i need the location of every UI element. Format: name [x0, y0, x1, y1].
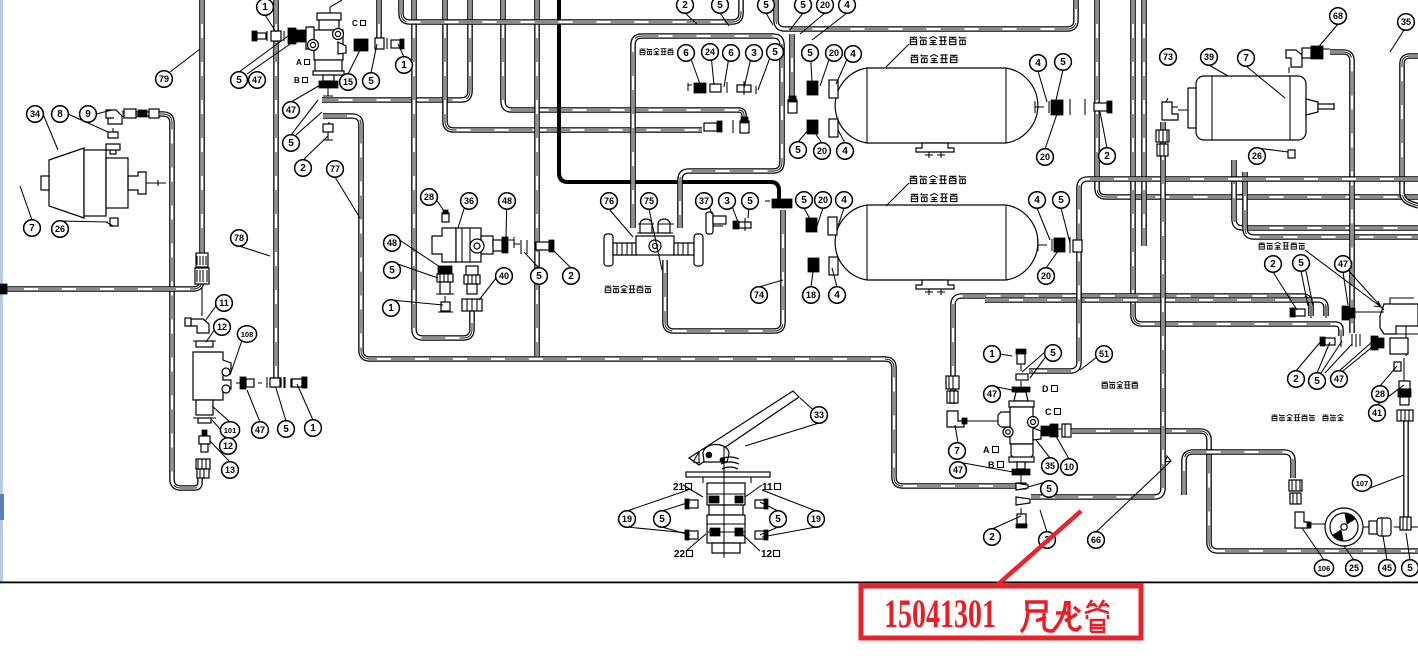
node callout 47: [1331, 371, 1348, 387]
svg-text:4: 4: [842, 146, 848, 157]
node callout 20: [815, 192, 832, 208]
svg-text:2: 2: [1293, 374, 1299, 385]
node callout 2: [984, 529, 1001, 545]
svg-text:2: 2: [989, 532, 995, 543]
leader lines 2: [627, 44, 1410, 560]
node callout 20: [814, 143, 831, 159]
node callout 47: [984, 386, 1001, 402]
node callout 4: [1030, 55, 1047, 71]
node callout 6: [678, 45, 695, 61]
node callout 106: [1314, 560, 1333, 576]
label install-left (hand valve): [1102, 381, 1138, 388]
node callout 79: [156, 71, 173, 87]
wire segment elbow7 to hand valve A: [962, 420, 1001, 422]
treadle port labels: [673, 482, 781, 560]
svg-text:5: 5: [772, 47, 778, 58]
node callout 5: [363, 73, 380, 89]
svg-text:78: 78: [234, 233, 244, 243]
node callout 4: [829, 287, 846, 303]
node callout 5: [802, 45, 819, 61]
wire long run to hand valve top: [1029, 179, 1418, 371]
node callout 3: [719, 193, 736, 209]
svg-text:4: 4: [1034, 195, 1040, 206]
svg-text:35: 35: [1045, 461, 1055, 471]
node callout 68: [1330, 8, 1347, 24]
node callout 5: [790, 142, 807, 158]
connector 107-line: [1289, 480, 1302, 504]
svg-text:25: 25: [1349, 563, 1359, 573]
wire riser 41 to gauge tee: [1403, 421, 1409, 519]
svg-text:73: 73: [1163, 52, 1173, 62]
node callout 9: [80, 106, 97, 122]
node callout 5: [278, 421, 295, 437]
svg-text:5: 5: [389, 265, 395, 276]
svg-text:47: 47: [987, 389, 997, 399]
wire drop to tank1 port row: [789, 34, 795, 100]
svg-text:21: 21: [673, 482, 685, 493]
fittings right of valve: 15,5,1: [354, 38, 404, 51]
wire dryer outlet down: [1330, 52, 1352, 333]
svg-text:36: 36: [464, 196, 474, 206]
svg-text:12: 12: [223, 441, 233, 451]
part 1 below: [438, 296, 453, 312]
svg-text:5: 5: [1046, 484, 1052, 495]
svg-text:C: C: [1045, 407, 1052, 417]
part 3 fitting: [733, 218, 751, 231]
wire right run C: [1234, 160, 1418, 228]
tank2 upper-left port: [806, 217, 837, 235]
svg-text:20: 20: [1041, 271, 1051, 281]
tank1 lower-left port fitting: [807, 119, 838, 137]
svg-text:15041301: 15041301: [884, 591, 996, 636]
node callout 2: [1099, 148, 1116, 164]
svg-text:11: 11: [219, 298, 229, 308]
svg-text:48: 48: [502, 196, 512, 206]
node callout 51: [1096, 346, 1113, 362]
air tank tank1: [835, 68, 1038, 158]
air tank tank2: [835, 205, 1038, 295]
drain valve 8: [106, 128, 120, 154]
node callout 48: [499, 193, 516, 209]
node callout 4: [845, 46, 862, 62]
fitting 5/1 mid-left: [270, 377, 307, 388]
svg-text:C: C: [352, 19, 358, 28]
svg-text:13: 13: [225, 465, 235, 475]
brake chamber 34: [41, 148, 166, 218]
wire valve A-port run: [322, 0, 470, 100]
svg-text:5: 5: [800, 0, 806, 11]
label tank2 line2: [911, 193, 957, 201]
wire tube 74 loop to protection valve: [665, 210, 783, 331]
svg-text:28: 28: [1375, 389, 1385, 399]
svg-text:19: 19: [811, 514, 821, 524]
fitting 41 stack: [1397, 358, 1413, 421]
node callout 77: [327, 161, 344, 177]
svg-text:5: 5: [1407, 563, 1413, 574]
svg-text:2: 2: [568, 271, 574, 282]
svg-text:D: D: [1042, 384, 1049, 394]
svg-text:5: 5: [1050, 348, 1056, 359]
node callout 25: [1346, 560, 1363, 576]
fitting 47 upper: [1342, 306, 1384, 320]
wire run to relay valve fitting 40: [414, 0, 472, 338]
node callout 5: [767, 44, 784, 60]
svg-text:24: 24: [705, 47, 715, 57]
red highlight leader: [995, 511, 1081, 587]
svg-text:5: 5: [717, 0, 723, 11]
svg-text:2: 2: [1104, 151, 1110, 162]
elbow 9: [106, 110, 122, 124]
node callout 20: [817, 0, 834, 13]
svg-text:37: 37: [699, 196, 709, 206]
svg-text:5: 5: [807, 48, 813, 59]
protection valve (top-left): [306, 0, 346, 96]
svg-text:28: 28: [424, 192, 434, 202]
fitting 12 lower: [199, 430, 210, 452]
fitting 5 and 1 near LSV: [267, 377, 306, 388]
node callout 20: [1038, 268, 1055, 284]
node callout 28: [1372, 386, 1389, 402]
part 37 flanged plug: [706, 212, 726, 234]
svg-text:7: 7: [29, 223, 35, 234]
hand valve C-port fitting 35/10: [1041, 424, 1071, 437]
svg-text:1: 1: [401, 60, 407, 71]
svg-text:47: 47: [252, 75, 262, 85]
wire run to plug fitting row: [445, 0, 702, 130]
wire segment LSV elbow drop: [201, 288, 203, 316]
nut 13: [196, 459, 210, 478]
red part number box: [861, 586, 1141, 638]
svg-text:11: 11: [762, 482, 773, 493]
svg-text:5: 5: [775, 514, 781, 525]
node callout 4: [839, 0, 856, 13]
node callout 39: [1201, 49, 1218, 65]
svg-text:107: 107: [1356, 479, 1369, 488]
svg-text:20: 20: [1040, 152, 1050, 162]
node callout 5: [384, 262, 401, 278]
spare port tubes: [1352, 334, 1360, 346]
svg-text:20: 20: [820, 0, 830, 10]
svg-text:B: B: [294, 76, 300, 85]
wire segment elbow106 to gauge: [1308, 524, 1371, 527]
node callout 36: [461, 193, 478, 209]
connector on riser: [195, 253, 209, 284]
tank2 lower-left port: [808, 257, 838, 275]
wire upper run to tank row: [776, 0, 1076, 29]
tank1 port row fittings: [688, 81, 756, 95]
wire long run to left edge: [0, 264, 202, 289]
node callout 101: [220, 422, 239, 438]
svg-text:5: 5: [763, 0, 769, 11]
knob 108: [236, 377, 262, 389]
svg-text:5: 5: [1058, 195, 1064, 206]
svg-text:5: 5: [1298, 258, 1304, 269]
svg-text:48: 48: [387, 238, 397, 248]
svg-text:18: 18: [806, 290, 816, 300]
wire long vertical to lower run: [534, 0, 540, 356]
fitting 40 stack: [464, 266, 480, 294]
node callout 19: [619, 511, 636, 527]
node callout 5: [654, 511, 671, 527]
part 2 fitting (top-left area): [323, 122, 333, 140]
node callout 41: [1369, 405, 1386, 421]
node callout 40: [496, 268, 513, 284]
node callout 15: [340, 74, 357, 90]
wire front chamber feed / LSV loop: [122, 114, 200, 488]
wire drop to C-port fitting: [376, 0, 382, 40]
node callout 26: [1249, 148, 1266, 164]
node callout 76: [601, 193, 618, 209]
label four-circuit valve: [605, 285, 651, 292]
svg-text:8: 8: [57, 109, 63, 120]
node callout 48: [384, 235, 401, 251]
load sensing valve 12: [193, 341, 231, 423]
svg-text:47: 47: [286, 105, 296, 115]
node callout 24: [702, 44, 719, 60]
svg-text:77: 77: [330, 164, 340, 174]
fitting row left of valve: [252, 31, 284, 41]
label spare port: [1323, 414, 1344, 420]
svg-text:5: 5: [747, 196, 753, 207]
svg-text:34: 34: [30, 109, 40, 119]
svg-text:A: A: [983, 445, 990, 455]
node callout 78: [231, 230, 248, 246]
fitting 48/5 stack below relay: [436, 266, 454, 294]
svg-text:20: 20: [818, 195, 828, 205]
node callout 47: [1335, 256, 1352, 272]
node callout 7: [949, 443, 966, 459]
node callout 5: [1309, 373, 1326, 389]
elbow 106: [1295, 512, 1311, 528]
svg-text:2: 2: [300, 163, 306, 174]
node callout 5: [770, 511, 787, 527]
knurled fitting 47 at valve left: [288, 28, 306, 44]
svg-text:40: 40: [499, 271, 509, 281]
pressure gauge 25: [1325, 508, 1363, 546]
node callout 34: [27, 106, 44, 122]
port letter labels: [294, 19, 1061, 470]
bottom border line: [0, 582, 1418, 584]
brake signal valve (right edge): [1380, 298, 1418, 356]
tank1 upper-left port fitting: [807, 80, 838, 98]
node callout 5: [1293, 255, 1310, 271]
plug fittings (2,5 left): [1290, 306, 1326, 318]
svg-text:33: 33: [814, 410, 824, 420]
svg-text:4: 4: [844, 0, 850, 11]
node callout 35: [1398, 14, 1415, 30]
air dryer 39: [1188, 76, 1334, 140]
node callout 5: [758, 0, 775, 13]
svg-text:101: 101: [224, 426, 237, 435]
svg-text:5: 5: [801, 195, 807, 206]
svg-text:47: 47: [255, 425, 265, 435]
node callout 5: [1402, 560, 1418, 576]
node callout 7: [24, 220, 41, 236]
supply hose end fitting: [765, 199, 792, 208]
connector on gauge line: [1156, 130, 1169, 156]
svg-text:22: 22: [674, 549, 686, 560]
node callout 4: [1029, 192, 1046, 208]
treadle valve body: [686, 446, 770, 558]
node callout 1: [305, 420, 322, 436]
wire segment gauge out right: [1394, 526, 1418, 528]
node callout 74: [751, 287, 768, 303]
part 26 dryer: [1288, 150, 1295, 158]
node callout 2: [1265, 256, 1282, 272]
node callout 3: [746, 45, 763, 61]
svg-text:1: 1: [262, 2, 268, 13]
node callout 37: [696, 193, 713, 209]
fittings after elbow 9: [124, 109, 159, 118]
tube fitting row 2: [704, 120, 748, 133]
node callout 5: [1041, 481, 1058, 497]
node callout 2: [677, 0, 694, 13]
node callout 28: [421, 189, 438, 205]
part 28 fitting: [442, 210, 449, 222]
svg-text:1: 1: [388, 303, 394, 314]
node callout 35: [1042, 458, 1059, 474]
node callout 26: [52, 221, 69, 237]
svg-text:68: 68: [1333, 11, 1343, 21]
svg-text:47: 47: [1338, 259, 1348, 269]
part 28 right: [1394, 362, 1401, 371]
node callout 47: [252, 422, 269, 438]
red label nylon tube: [1021, 600, 1109, 632]
node callout 73: [1160, 49, 1177, 65]
wire right run C2: [1245, 172, 1418, 237]
svg-text:10: 10: [1064, 462, 1074, 472]
svg-text:2: 2: [1270, 259, 1276, 270]
tube and plug right (5,2): [521, 240, 554, 254]
fitting on riser 41 line: [1400, 517, 1411, 530]
wire gauge feed long run: [1031, 122, 1163, 497]
node callout 108: [237, 326, 256, 342]
nut 40 lower: [462, 299, 482, 311]
wire riser to LSV connector: [199, 0, 205, 253]
node callout 1: [396, 57, 413, 73]
node callout 5: [1053, 192, 1070, 208]
svg-text:4: 4: [850, 49, 856, 60]
svg-text:74: 74: [754, 290, 764, 300]
label clutch port: [1259, 242, 1305, 249]
node callout 6: [723, 45, 740, 61]
node callout 5: [231, 72, 248, 88]
part 26 square (chamber): [110, 218, 118, 226]
wire run to spare port: [1133, 0, 1341, 336]
node callout 18: [803, 287, 820, 303]
svg-text:5: 5: [236, 75, 242, 86]
wire segment hand valve C out: [1070, 428, 1074, 430]
node callout 5: [742, 193, 759, 209]
tube fitting on drop: [788, 96, 797, 113]
node callout 12: [220, 438, 237, 454]
wire right run A: [1097, 0, 1418, 197]
svg-text:47: 47: [1334, 374, 1344, 384]
svg-text:5: 5: [368, 76, 374, 87]
svg-text:108: 108: [241, 330, 254, 339]
node callout 19: [808, 511, 825, 527]
tube fitting at drop end: [740, 117, 749, 133]
node callout 7: [1238, 50, 1255, 66]
wire valve B-port long run to treadle area: [323, 116, 1016, 486]
svg-text:15: 15: [343, 77, 353, 87]
tank2 right port: [1038, 237, 1082, 253]
node callout 47: [283, 102, 300, 118]
svg-text:7: 7: [1243, 53, 1249, 64]
svg-text:4: 4: [841, 195, 847, 206]
node callout 1: [257, 0, 274, 15]
dryer top elbow + fittings: [1286, 46, 1330, 73]
svg-text:75: 75: [644, 196, 654, 206]
part 2 bolt under tube end: [1016, 508, 1027, 528]
wire vertical to fitting 5: [273, 0, 279, 378]
svg-text:5: 5: [659, 514, 665, 525]
node callout 75: [641, 193, 658, 209]
node callout 107: [1352, 475, 1371, 491]
treadle side fittings: [685, 499, 768, 540]
wire main supply (thick hose): [559, 0, 779, 199]
wire parallel run to clutch tubes: [985, 300, 1326, 316]
svg-text:20: 20: [817, 146, 827, 156]
node callout 2: [295, 160, 312, 176]
node callout 1: [383, 300, 400, 316]
tube end gauge line: [1016, 497, 1030, 505]
fitting 48 right of relay: [493, 237, 520, 253]
wire protection valve twin feed: [633, 36, 782, 228]
svg-text:41: 41: [1372, 408, 1382, 418]
svg-text:5: 5: [536, 271, 542, 282]
node callout 1: [984, 346, 1001, 362]
wire upper loop: [401, 0, 741, 22]
plug at left edge: [0, 284, 7, 294]
node callout 12: [214, 319, 231, 335]
node callout 5: [1055, 54, 1072, 70]
node callout 4: [837, 143, 854, 159]
svg-text:5: 5: [1314, 376, 1320, 387]
label hand valve port: [1272, 414, 1315, 420]
label pressure sensor: [640, 48, 674, 54]
fitting 47 lower: [1371, 336, 1384, 350]
svg-text:4: 4: [1035, 58, 1041, 69]
node callout 33: [811, 407, 828, 423]
node callout 2: [1288, 371, 1305, 387]
node callout 10: [1061, 459, 1078, 475]
treadle valve 33 pedal: [689, 391, 799, 474]
node callout 66: [1088, 532, 1105, 548]
leader lines: [20, 13, 1404, 462]
node callout 5: [1045, 345, 1062, 361]
node callout 20: [1037, 149, 1054, 165]
svg-text:5: 5: [283, 424, 289, 435]
svg-text:12: 12: [761, 549, 773, 560]
tank1 right port: [1035, 99, 1112, 115]
node callout 5: [531, 268, 548, 284]
node callout 4: [836, 192, 853, 208]
node callout 45: [1379, 560, 1396, 576]
svg-text:106: 106: [1318, 564, 1331, 573]
label tank1 line2: [911, 54, 957, 62]
node callout 8: [52, 106, 69, 122]
svg-text:9: 9: [85, 109, 91, 120]
node callout 5: [283, 135, 300, 151]
svg-text:51: 51: [1099, 349, 1109, 359]
node callout 5: [795, 0, 812, 13]
svg-text:47: 47: [953, 465, 963, 475]
svg-text:5: 5: [1060, 57, 1066, 68]
elbow 7 assembly left of hand valve: [946, 376, 967, 427]
label tank2 line1: [910, 175, 966, 183]
svg-text:3: 3: [751, 48, 757, 59]
